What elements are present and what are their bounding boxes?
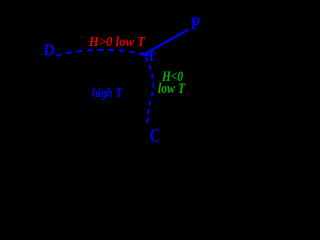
junction dash at T	[140, 54, 148, 56]
svg-text:high T: high T	[92, 86, 123, 101]
dashed crossover curve from D to T	[56, 50, 144, 56]
svg-text:H>0 low T: H>0 low T	[88, 35, 146, 50]
svg-text:low T: low T	[158, 81, 186, 97]
svg-text:P: P	[191, 14, 201, 34]
svg-text:T: T	[147, 50, 157, 65]
solid first-order line from T to P	[143, 30, 189, 56]
svg-text:C: C	[150, 126, 161, 147]
svg-text:D: D	[44, 42, 55, 59]
dashed curve from T down to C	[146, 57, 154, 127]
